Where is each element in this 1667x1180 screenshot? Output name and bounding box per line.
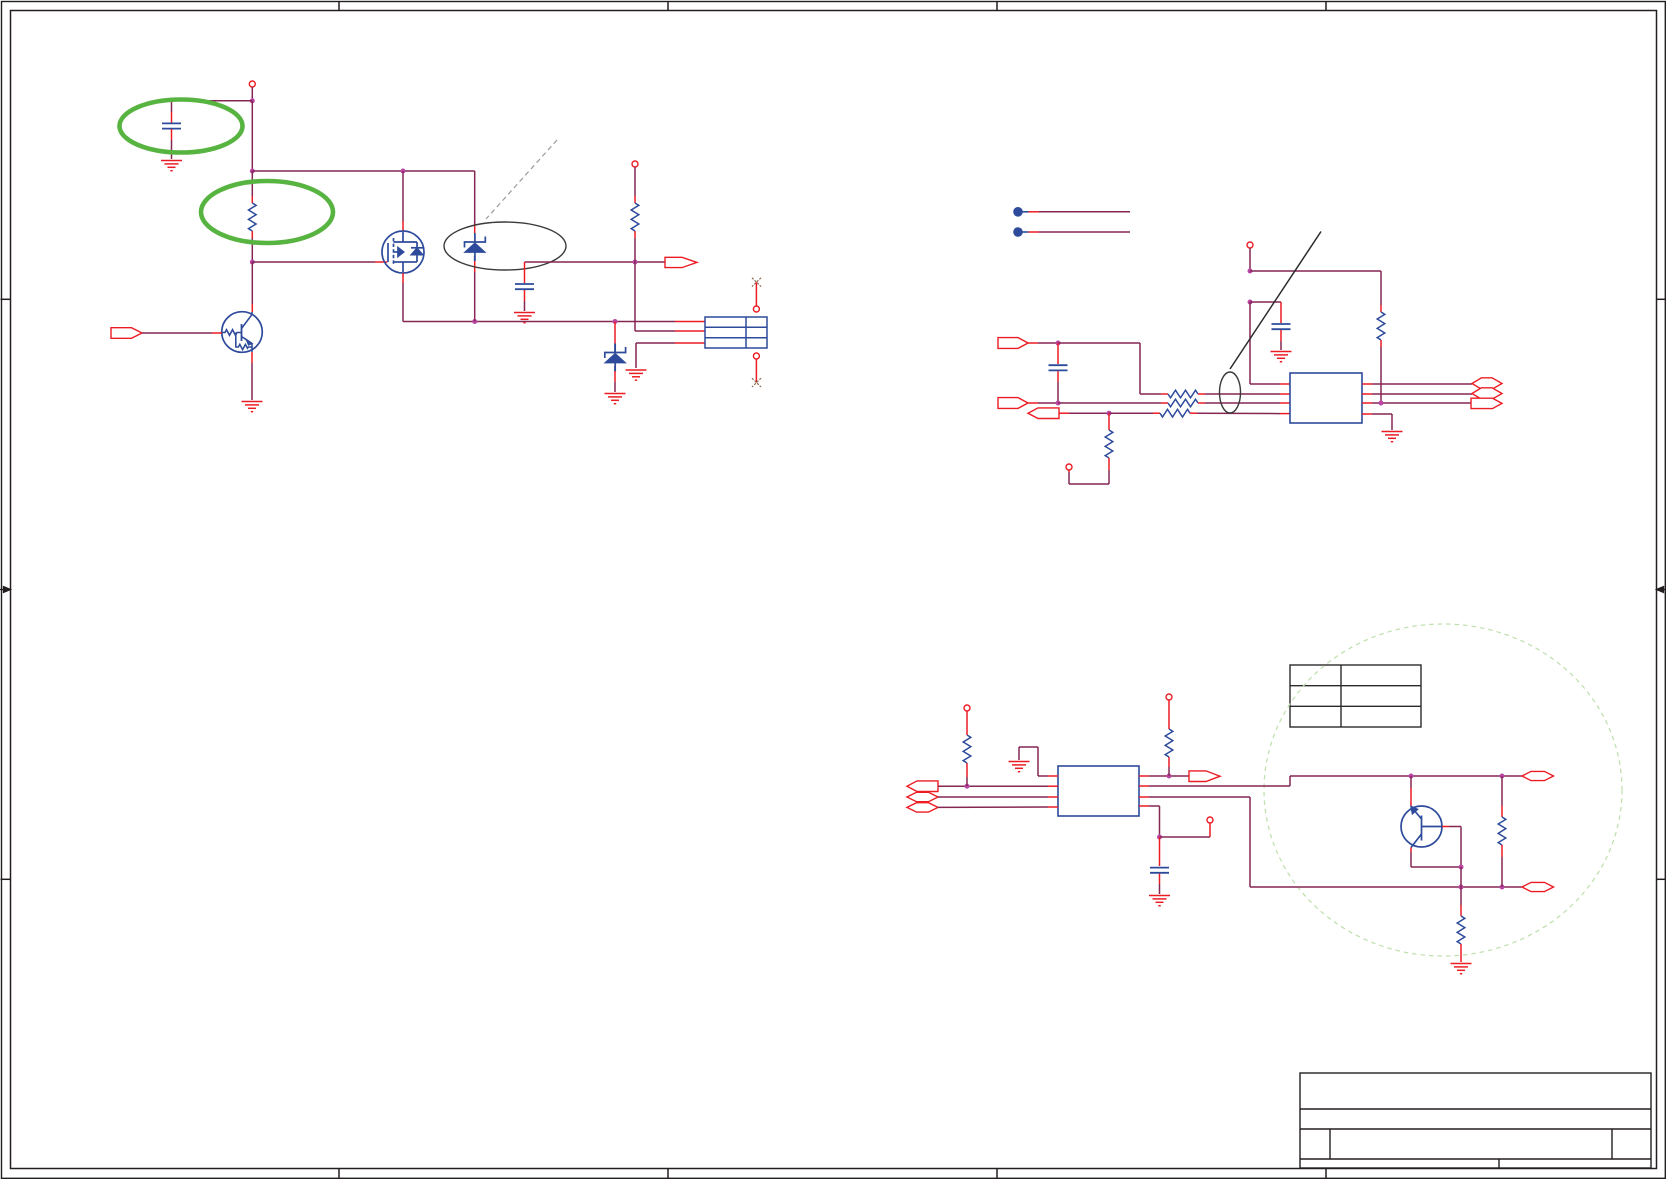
ground at U2 hook [1009,762,1030,772]
mount pin circle top [753,306,759,312]
port PORT5 (bidirectional) [1472,378,1502,389]
U2 right pin4 wire [1139,806,1160,837]
title block [1300,1073,1651,1168]
border zone tick top 3 [996,1,998,11]
border zone tick top 2 [667,1,669,11]
border zone tick right 1 [1657,298,1667,300]
output net wire with port OUT1 [525,261,666,263]
border zone tick top 1 [338,1,340,11]
IC U2 [1058,766,1139,816]
node C junction (MOSFET drain tap) [401,169,406,174]
resistor R5 [1058,399,1290,407]
ground at connector row 3 [626,370,647,380]
green highlight ellipse around R1 [201,181,333,243]
port OUT1 [665,257,697,267]
node F junction [613,319,618,324]
U1 right pin 3 wire [1362,402,1471,404]
node N junction [965,784,970,789]
wire X to mount pin top [755,282,757,306]
U2 right pin1 wire [1139,775,1189,777]
wire P1 to node A [251,87,253,101]
wire PORT10 to U2 [938,806,1058,808]
green highlight ellipse around C1 [120,100,243,153]
dashed highlight circle [1264,624,1622,956]
border zone tick bottom 2 [667,1169,669,1179]
port PORT6 (bidirectional) [1472,388,1502,399]
wire node D down to Q1 collector [251,262,253,312]
capacitor C5 [1150,837,1169,894]
pull-up pin P2 [632,161,638,167]
ground below C5 [1149,896,1170,906]
port PORT13 (bidirectional) [1522,882,1554,891]
resistor R1 [249,171,257,262]
wire node A down to node B [251,101,253,171]
wire PORT9 to U2 [938,796,1058,798]
pull-up pin P5 [964,705,970,711]
MOSFET source wire down [402,273,404,322]
pin P7 [1207,817,1213,823]
node D junction [250,260,255,265]
port PORT10 (bidirectional) [907,803,938,812]
node U junction [1459,865,1464,870]
ground below C2 [514,313,535,323]
power pin P3 [1247,242,1253,248]
wire node H to R3 [1250,270,1381,272]
testpoint TP2 [1013,227,1023,237]
input port PORT2 [998,338,1028,349]
port PORT9 (bidirectional) [907,792,938,801]
resistor R8 (pull-up) [963,711,971,786]
border mid arrow right [1657,587,1667,593]
no-connect X top [752,278,761,287]
ground below U1 [1382,432,1403,442]
node J junction [1056,341,1061,346]
U2 right pin2 long wire [1139,776,1522,786]
transistor Q3 (PNP) [1401,806,1442,848]
resistor R10 [1498,776,1506,887]
node R junction [1459,885,1464,890]
resistor R9 (pull-up) [1165,700,1173,776]
border zone tick right 2 [1657,878,1667,880]
capacitor C4 [1049,343,1068,403]
testpoint TP1 [1013,207,1023,217]
node P junction [1409,774,1414,779]
power pin P1 [249,81,255,87]
port PORT7 [1471,398,1502,408]
black callout ellipse around D1 [444,222,566,270]
no-connect X bottom [752,378,761,387]
resistor R2 [631,167,639,262]
capacitor C2 [515,262,534,311]
capacitor C1 [162,101,181,159]
port PORT8 (left pointing) [907,781,938,792]
wire node C down to MOSFET [402,171,404,232]
wire node I to C3 [1250,301,1281,303]
node E junction [472,319,477,324]
wire node B to zener column [252,170,474,172]
transistor Q1 (digital NPN) [222,312,263,353]
border zone tick left 1 [1,298,11,300]
port PORT11 [1189,771,1220,782]
revision table [1290,665,1421,727]
port PORT12 (bidirectional) [1522,771,1554,780]
U2 top-left ground hook wire [1019,747,1058,776]
IC U1 [1290,373,1362,423]
node G junction [633,260,638,265]
zener diode D2 [605,322,626,393]
wire node U to node R [1460,867,1462,887]
U1 right pin 1 wire [1362,383,1472,385]
node T junction [1157,835,1162,840]
pull-up pin P6 [1166,694,1172,700]
wire PORT8 to U2 [938,785,1058,787]
wire TP2 [1023,231,1131,233]
twisted-pair callout ellipse [1220,372,1241,413]
ground below C3 [1271,352,1292,362]
connector row 3 ground wire [636,343,705,368]
resistor R7 (to sense pin) [1069,413,1113,484]
border zone tick left 2 [1,878,11,880]
border zone tick bottom 4 [1325,1169,1327,1179]
wire node J to resistor R4 row [1058,343,1161,394]
connector J1 table [705,317,767,348]
bottom rail wire to connector row 1 [403,321,705,323]
Q1 emitter wire to ground [251,352,253,400]
wire P3 down [1249,248,1251,271]
ground below R11 [1451,964,1472,974]
U1 ground pin wire [1362,414,1392,430]
border zone tick bottom 3 [996,1169,998,1179]
output port PORT4 (left pointing) [1028,408,1059,419]
resistor R6 [1109,409,1290,417]
wire PORT1 to Q1 base [142,332,222,334]
node H junction [1248,269,1253,274]
mount pin circle bottom [753,353,759,359]
resistor R3 (pull-up) [1377,271,1385,403]
node O junction [1167,774,1172,779]
wire PORT4 to node L [1059,412,1109,414]
node K junction [1056,401,1061,406]
wire mount pin bottom to X [755,359,757,383]
ground below C1 [161,161,182,171]
node B junction [250,169,255,174]
sense pin P4 [1066,464,1072,470]
zener diode D1 [465,171,486,322]
resistor R11 (to ground) [1457,887,1465,962]
Q3 collector wire [1411,848,1461,868]
wire node G down to connector row 2 [635,262,705,331]
wire node P to Q3 emitter [1410,776,1412,806]
callout leader line [1230,232,1321,370]
U2 right pin3 long wire [1139,797,1522,887]
U1 right pin 2 wire [1362,393,1472,395]
border zone tick top 4 [1325,1,1327,11]
node L junction [1107,411,1112,416]
border zone tick bottom 1 [338,1169,340,1179]
capacitor C3 [1272,302,1291,350]
wire TP1 [1023,211,1131,213]
wire node A to C1 [172,100,253,102]
ground below D2 [605,394,626,404]
MOSFET Q2 (P-ch with body diode) [382,231,424,273]
wire node I down to U1 pin1 [1250,302,1290,384]
border mid arrow left [0,587,11,593]
dashed leader line [486,140,557,219]
input port PORT1 [111,328,142,339]
node M junction [1379,401,1384,406]
node A junction [250,98,255,103]
resistor R4 [1161,390,1290,398]
Q3 base wire to node R [1442,827,1461,868]
wire node T to pin P7 [1160,823,1211,837]
node S junction [1500,885,1505,890]
wire node D to MOSFET gate [252,261,387,263]
node I junction [1248,300,1253,305]
input port PORT3 [998,398,1028,409]
node Q junction [1500,774,1505,779]
wire PORT2 to node J [1028,342,1058,344]
ground below Q1 [242,402,263,412]
wire PORT3 to node K [1028,402,1058,404]
